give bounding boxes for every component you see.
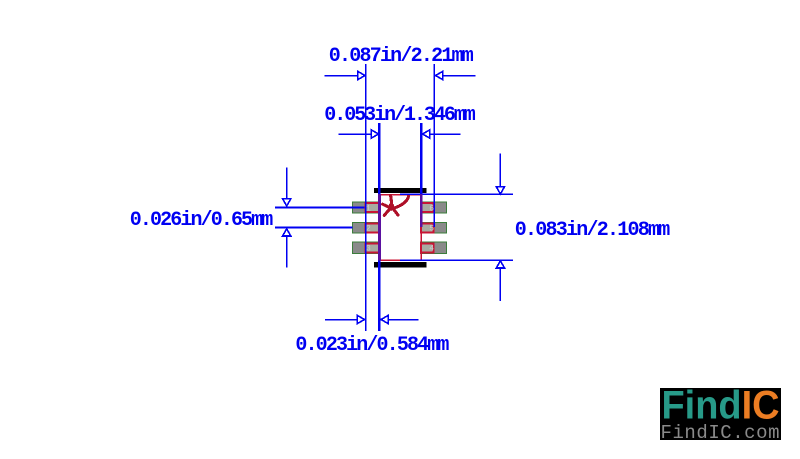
svg-text:FindIC.com: FindIC.com: [661, 422, 780, 444]
pad P6 (right top): [421, 202, 447, 213]
extension line V2: [378, 123, 380, 331]
lead L4 outline: [421, 243, 434, 253]
dimension wire 0.026 bottom reference: [275, 227, 353, 229]
svg-text:0.026in/0.65mm: 0.026in/0.65mm: [130, 209, 273, 232]
svg-text:FindIC: FindIC: [662, 384, 780, 428]
svg-text:4: 4: [429, 244, 434, 253]
lead L2 outline: [366, 223, 380, 233]
dim 0.083 down arrow: [496, 154, 504, 194]
pad P2 (left middle): [353, 222, 381, 233]
lead L5 outline: [421, 223, 434, 233]
svg-text:5: 5: [429, 225, 434, 234]
dim 0.026 down arrow: [283, 168, 291, 207]
lead L1 outline: [366, 203, 380, 213]
svg-text:6: 6: [429, 204, 434, 213]
svg-text:0.087in/2.21mm: 0.087in/2.21mm: [329, 45, 474, 68]
svg-text:1: 1: [366, 204, 371, 213]
extension line V4: [433, 64, 435, 227]
dim 0.087 right arrow wire: [436, 71, 476, 79]
extension line V3 purple overlap: [420, 194, 423, 227]
dim 0.053 left arrow wire: [339, 130, 379, 138]
svg-text:2: 2: [366, 225, 371, 234]
FindIC logo: [660, 384, 781, 445]
dimension wire 0.026 top reference: [275, 206, 367, 208]
dim 0.087 left arrow wire: [325, 71, 366, 79]
black bar bottom: [374, 262, 427, 268]
dim 0.023 left arrow wire: [325, 315, 365, 323]
lead L3 outline: [366, 243, 380, 253]
extension line V3: [420, 123, 422, 227]
svg-text:0.053in/1.346mm: 0.053in/1.346mm: [324, 104, 476, 127]
extension line V1: [365, 64, 367, 331]
svg-text:0.083in/2.108mm: 0.083in/2.108mm: [515, 219, 671, 242]
svg-text:3: 3: [366, 244, 371, 253]
body top extension wire: [400, 193, 513, 195]
lead L6 outline: [421, 203, 434, 213]
dim 0.083 up arrow: [496, 261, 504, 301]
svg-text:0.023in/0.584mm: 0.023in/0.584mm: [295, 334, 449, 357]
pin1 marker star: [383, 195, 409, 215]
pad P3 (left bottom): [353, 242, 381, 254]
package body outline: [379, 195, 421, 261]
dim 0.023 right arrow wire: [381, 315, 419, 323]
body bottom extension wire: [400, 259, 513, 261]
dim 0.053 right arrow wire: [423, 130, 461, 138]
pad P5 (right middle): [421, 222, 447, 233]
pad P4 (right bottom): [421, 242, 447, 254]
dim 0.026 up arrow: [283, 229, 291, 268]
black bar top: [374, 188, 427, 193]
pad P1 (left top): [353, 202, 381, 213]
extension line V2 purple overlap: [378, 194, 381, 261]
